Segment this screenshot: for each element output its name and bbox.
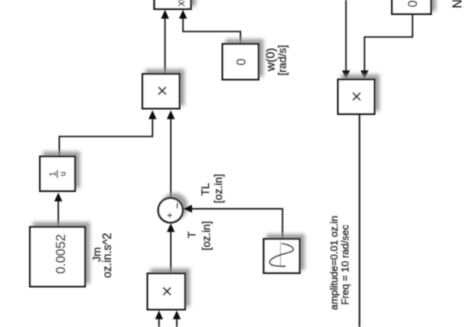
wire from constant 0 into product P2 right port: [365, 14, 413, 72]
arrowhead into product P2 left port: [342, 70, 350, 79]
svg-text:Freq = 10 rad/sec: Freq = 10 rad/sec: [341, 225, 352, 305]
constant block 0.0052: [30, 227, 85, 287]
product block P1 (center): [143, 74, 180, 109]
wire from reciprocal block into product P1 left port: [59, 115, 152, 157]
arrowhead into product P3 left port: [155, 311, 163, 320]
arrowhead into integrator x0 port: [179, 10, 187, 19]
arrowhead into product P1 right port: [167, 110, 175, 119]
constant block 0 (top right, cut off at top edge): [392, 0, 431, 14]
svg-text:0.0052: 0.0052: [53, 234, 68, 274]
arrowhead into sum S1 right port: [183, 205, 192, 213]
svg-text:0: 0: [406, 0, 420, 7]
svg-text:x0: x0: [175, 0, 187, 6]
label w(0) [rad/s]: [264, 45, 289, 76]
sum block S1: [158, 198, 183, 223]
svg-text:amplitude=0.01 oz.in: amplitude=0.01 oz.in: [329, 216, 340, 310]
arrowhead into product P1 left port: [149, 110, 157, 119]
constant block w(0): [223, 44, 259, 80]
svg-text:1: 1: [48, 171, 58, 176]
wire from constant w(0) to integrator x0 port: [183, 14, 241, 44]
label T [oz.in]: [187, 221, 213, 250]
svg-text:N: N: [450, 0, 464, 8]
arrowhead into product P3 right port: [173, 311, 181, 320]
label TL [oz.in]: [200, 174, 225, 203]
integrator U1 (1/s, cut off at top edge): [154, 0, 191, 9]
wire from sum S1 into product P1 right port: [170, 115, 172, 198]
svg-text:w(0): w(0): [264, 48, 278, 72]
wire from product P3 into sum S1 plus port: [170, 228, 172, 274]
arrowhead into sum S1 bottom port: [167, 223, 175, 232]
product block P3 (bottom): [148, 274, 186, 310]
svg-text:oz.in.s^2: oz.in.s^2: [102, 233, 114, 278]
wire from product P2 down to bottom edge: [359, 114, 361, 327]
svg-text:T: T: [187, 231, 199, 238]
arrowhead into integrator left port: [161, 10, 169, 19]
svg-text:[oz.in]: [oz.in]: [201, 221, 213, 250]
sine wave source block: [264, 239, 300, 273]
arrowhead into product P2 right port: [361, 70, 369, 79]
wire from sine source to sum S1 minus port: [188, 209, 283, 238]
svg-text:[oz.in]: [oz.in]: [213, 174, 225, 203]
wire from constant 0.0052 into reciprocal block: [57, 197, 59, 227]
wire from bottom edge into product P3 right port: [176, 315, 178, 327]
svg-text:+: +: [165, 213, 175, 218]
wire from bottom edge into product P3 left port: [158, 315, 160, 327]
wire from top edge into product P2 left port: [345, 0, 347, 72]
wire from product P1 up into integrator U1: [164, 14, 166, 74]
svg-text:TL: TL: [200, 183, 212, 196]
label amplitude=0.01 oz.in / Freq = 10 rad/sec: [329, 216, 351, 310]
arrowhead into reciprocal block: [54, 193, 62, 202]
svg-text:[rad/s]: [rad/s]: [277, 45, 289, 76]
reciprocal block 1/u: [40, 157, 75, 192]
product block P2 (right): [338, 80, 375, 115]
label Jm oz.in.s^2: [92, 233, 114, 278]
svg-text:0: 0: [234, 58, 248, 65]
svg-text:u: u: [58, 171, 68, 176]
